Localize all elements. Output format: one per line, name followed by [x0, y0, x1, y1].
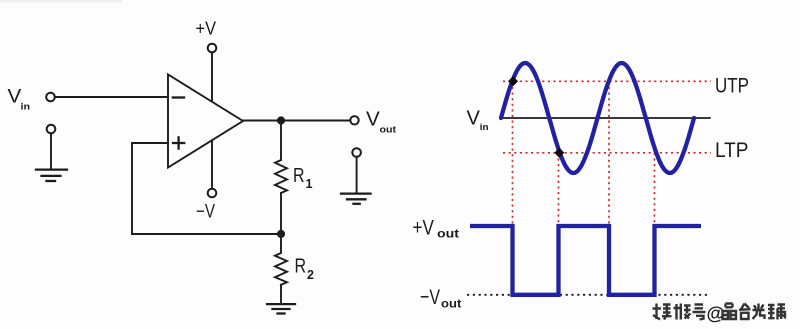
char hu [674, 304, 691, 320]
wire Vin to inverting input [56, 96, 169, 98]
ground GND1 [36, 170, 67, 181]
char tai [739, 304, 751, 320]
plus input pin mark [173, 137, 184, 148]
vertical dotted line t3 [608, 81, 610, 226]
svg-text:out: out [380, 125, 397, 136]
svg-text:2: 2 [307, 268, 314, 282]
char sou [653, 304, 672, 320]
svg-text:out: out [441, 299, 461, 311]
node Vout terminal [350, 116, 358, 124]
wire feedback [132, 143, 281, 234]
svg-text:1: 1 [306, 177, 313, 191]
char guang [753, 304, 765, 320]
wire -V supply [211, 141, 213, 189]
vertical dotted line t1 [512, 81, 514, 226]
ground GND2 [341, 194, 371, 204]
svg-text:V: V [8, 86, 22, 108]
wire R2 to ground [280, 285, 282, 304]
-Vout level dotted line [467, 294, 710, 296]
svg-text:LTP: LTP [715, 138, 749, 162]
ground GND3 [267, 304, 295, 313]
watermark 搜狐号@晶台光耦 [653, 304, 706, 320]
node input ground terminal [47, 125, 56, 134]
char ou [768, 305, 785, 320]
vertical dotted line t4 [654, 153, 656, 226]
svg-text:UTP: UTP [715, 73, 749, 97]
wire output [243, 120, 350, 122]
node junction output [277, 116, 285, 124]
wire R1 to feedback node [280, 193, 282, 234]
minus input pin mark [173, 96, 184, 98]
square wave Vout [470, 226, 701, 295]
wire terminal to ground [356, 157, 358, 193]
sine wave Vin [501, 63, 694, 173]
svg-text:V: V [467, 107, 481, 129]
wire time axis [500, 117, 711, 119]
svg-text:out: out [437, 228, 459, 240]
LTP threshold dotted line [503, 152, 711, 154]
wire output node to R1 [280, 121, 282, 161]
UTP threshold dotted line [503, 80, 711, 82]
svg-text:in: in [21, 102, 31, 113]
svg-text:−V: −V [420, 285, 440, 309]
node +V terminal [208, 44, 217, 53]
wire terminal to ground [50, 134, 52, 169]
svg-text:−V: −V [196, 202, 215, 223]
node output ground terminal [352, 148, 361, 157]
node junction feedback [277, 230, 285, 238]
svg-text:R: R [293, 165, 305, 187]
resistor R2 [275, 238, 287, 285]
char jing [723, 304, 737, 320]
svg-text:+V: +V [196, 19, 217, 39]
op-amp U1 [168, 75, 243, 168]
wire +V supply [211, 53, 213, 102]
node crossing dot UTP [508, 76, 518, 86]
svg-text:R: R [295, 256, 307, 278]
char hao [693, 305, 706, 320]
node -V terminal [208, 189, 217, 198]
vertical dotted line t2 [558, 153, 560, 226]
node Vin terminal [46, 93, 55, 102]
resistor R1 [275, 160, 287, 193]
svg-text:+V: +V [413, 216, 434, 239]
node crossing dot LTP [554, 148, 564, 158]
svg-text:in: in [480, 122, 489, 132]
svg-text:V: V [366, 109, 380, 131]
